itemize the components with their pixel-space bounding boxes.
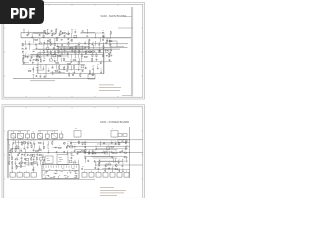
capacitor C23: [61, 44, 63, 46]
resistor R7: [62, 32, 66, 33]
resistor R5: [85, 142, 86, 146]
label text: [25, 52, 27, 55]
resistor R12: [123, 152, 127, 153]
label text: [85, 148, 87, 151]
node N8: [56, 56, 59, 59]
wire: [39, 138, 41, 140]
capacitor C14: [30, 59, 32, 61]
wire: [44, 43, 128, 45]
wire: [31, 34, 33, 36]
wire: [54, 38, 56, 42]
capacitor C5: [60, 30, 62, 32]
label text: [47, 52, 49, 55]
label text: [24, 148, 27, 151]
wire: [33, 171, 35, 173]
IC U3: [23, 142, 26, 144]
wire: [93, 157, 117, 159]
resistor R26: [75, 46, 76, 50]
resistor R38: [99, 163, 100, 167]
wire: [12, 145, 14, 149]
resistor R32: [84, 56, 88, 57]
label text: [85, 53, 87, 56]
IC U5: [32, 154, 35, 156]
label text: [56, 56, 59, 59]
wire: [54, 131, 56, 133]
wire: [61, 51, 63, 53]
capacitor C49: [23, 62, 25, 64]
label text: [31, 59, 34, 62]
module box: [89, 172, 94, 177]
ground: [78, 69, 80, 71]
wire: [48, 150, 50, 152]
node N14: [92, 44, 95, 47]
label text: [24, 151, 25, 154]
node N20: [109, 33, 112, 36]
resistor R14: [43, 50, 44, 54]
wire: [110, 47, 112, 49]
label text: [115, 157, 117, 160]
node N4: [94, 33, 97, 36]
wire: [97, 66, 99, 68]
ground: [23, 148, 25, 150]
label text: [81, 52, 84, 55]
label text: [33, 37, 34, 40]
wire: [84, 158, 86, 162]
node N7: [10, 151, 13, 154]
wire: [32, 74, 34, 78]
label text: [72, 72, 75, 75]
wire: [126, 158, 128, 162]
label text: [85, 154, 86, 157]
wire: [8, 141, 10, 145]
wire: [88, 152, 103, 154]
resistor R35: [58, 147, 62, 148]
label text: [81, 57, 83, 60]
wire: [105, 171, 107, 173]
wire: [95, 164, 143, 166]
wire: [42, 66, 44, 68]
module box: [103, 172, 108, 177]
page 1 note text line 1: [99, 84, 114, 87]
wire: [70, 54, 72, 58]
resistor R31: [85, 51, 86, 55]
resistor R11: [35, 60, 39, 61]
wire: [67, 143, 69, 145]
label text: [102, 29, 104, 32]
ground: [73, 72, 75, 74]
IC U3: [50, 59, 53, 61]
capacitor C30: [56, 151, 58, 153]
label text: [80, 72, 82, 75]
label text: [37, 53, 38, 56]
node N4: [8, 143, 11, 146]
capacitor C19: [24, 154, 26, 156]
label text: [33, 156, 35, 159]
wire: [81, 58, 83, 62]
resistor R45: [73, 162, 77, 163]
capacitor C18: [21, 157, 23, 159]
ground: [37, 164, 39, 166]
label text: [97, 165, 98, 168]
label text: [47, 160, 50, 163]
ground: [122, 171, 124, 173]
label text: [7, 140, 10, 143]
capacitor C34: [87, 160, 89, 162]
page 2 sheet: [2, 105, 145, 199]
ground: [98, 44, 100, 46]
relay K59: [60, 134, 63, 138]
resistor R43: [59, 65, 60, 69]
resistor R25: [29, 155, 33, 156]
IC U1: [74, 131, 81, 138]
wire: [115, 158, 117, 162]
node N19: [32, 73, 35, 76]
resistor R33: [43, 161, 44, 165]
resistor R36: [93, 153, 97, 154]
diode D1: [74, 146, 75, 147]
page 1 sheet: [2, 3, 145, 100]
wire: [95, 34, 97, 38]
IC U2: [46, 48, 49, 50]
node N18: [32, 67, 35, 70]
label text: [32, 164, 35, 167]
label text: [27, 31, 28, 34]
diode D5: [33, 59, 34, 60]
node N11: [39, 160, 42, 163]
capacitor C32: [84, 157, 86, 159]
node N22: [131, 27, 134, 30]
resistor R33: [88, 41, 89, 45]
wire: [117, 45, 124, 47]
capacitor C24: [60, 48, 62, 50]
wire: [32, 69, 34, 73]
label text: [36, 73, 37, 76]
wire: [55, 65, 57, 69]
wire: [70, 59, 72, 61]
label text: [126, 145, 128, 148]
label text: [89, 48, 92, 51]
ground: [61, 54, 63, 56]
wire: [32, 166, 34, 168]
label text: [21, 159, 22, 162]
ground: [92, 69, 94, 71]
ground: [39, 53, 41, 55]
wire: [47, 141, 49, 145]
module box: [24, 173, 29, 178]
ground: [97, 68, 99, 70]
label text: [85, 40, 87, 43]
label text: [103, 36, 105, 39]
capacitor C54: [40, 75, 42, 77]
wire: [106, 37, 111, 39]
page 1 frame zone ticks bottom: [26, 96, 118, 97]
capacitor C44: [33, 169, 35, 171]
resistor R49: [67, 63, 71, 64]
label text: [76, 53, 78, 56]
label text: [47, 28, 49, 31]
label text: [74, 159, 76, 162]
resistor R30: [81, 54, 82, 58]
wire: [57, 46, 59, 48]
wire: [100, 38, 102, 42]
capacitor C51: [31, 56, 33, 58]
resistor R22: [57, 55, 61, 56]
wire: [47, 42, 49, 46]
transistor Q3: [39, 56, 41, 58]
label text: [84, 65, 87, 68]
wire: [39, 146, 41, 148]
label text: [92, 41, 94, 44]
ground: [67, 54, 69, 56]
module box: [117, 172, 122, 177]
label text: [84, 140, 86, 143]
label text: [47, 148, 50, 151]
capacitor C31: [81, 168, 83, 170]
wire: [91, 156, 113, 158]
wire: [30, 53, 104, 55]
label text: [64, 33, 66, 36]
resistor R37: [99, 160, 100, 164]
wire: [24, 149, 26, 153]
label text: [23, 59, 26, 62]
wire: [108, 151, 110, 155]
label text: [94, 150, 96, 153]
wire: [75, 149, 118, 151]
wire: [50, 54, 52, 58]
sub-circuit box: [38, 53, 104, 74]
capacitor C26: [67, 38, 69, 40]
page 2 note text line 2: [100, 189, 126, 192]
page 2 note text line 1: [100, 186, 114, 189]
transistor Q6: [103, 36, 105, 38]
wire: [118, 27, 133, 29]
label text: [21, 163, 23, 166]
PDF badge letter P: [11, 8, 19, 19]
ground: [15, 163, 17, 165]
wire: [10, 179, 95, 181]
label text: [21, 155, 22, 158]
resistor R34: [52, 141, 53, 145]
label text: [99, 158, 100, 161]
capacitor C36: [106, 40, 108, 42]
capacitor C8: [103, 142, 105, 144]
capacitor C12: [121, 150, 123, 152]
node N16: [121, 158, 124, 161]
IC small: [123, 134, 127, 137]
wire: [57, 43, 59, 45]
ground: [99, 50, 101, 52]
label text: [25, 160, 26, 163]
wire: [8, 152, 130, 154]
wire: [65, 61, 112, 63]
label text: [43, 48, 44, 51]
wire: [39, 51, 41, 53]
label text: [37, 151, 38, 154]
label text: [94, 40, 97, 43]
resistor R2: [52, 33, 56, 34]
transistor Q2: [36, 55, 38, 57]
wire: [32, 39, 34, 43]
ground: [108, 56, 110, 58]
ground: [100, 72, 102, 74]
wire: [37, 162, 39, 164]
capacitor C12: [25, 47, 27, 49]
node N6: [11, 143, 14, 146]
module box: [82, 172, 87, 177]
capacitor C37: [94, 167, 96, 169]
wire: [97, 161, 122, 163]
label text: [39, 49, 42, 52]
wire: [31, 53, 57, 55]
label text: [64, 65, 66, 68]
label text: [29, 44, 30, 47]
wire: [67, 53, 69, 57]
capacitor C41: [111, 156, 113, 158]
module box: [110, 172, 115, 177]
label text: [27, 144, 29, 147]
wire: [118, 160, 120, 162]
capacitor C15: [35, 44, 37, 46]
label text: [71, 150, 72, 153]
capacitor C36: [94, 160, 96, 162]
capacitor C27: [33, 158, 35, 160]
wire: [21, 31, 46, 33]
label text: [76, 44, 78, 47]
wire: [38, 130, 58, 132]
capacitor C53: [36, 75, 38, 77]
label text: [51, 130, 54, 133]
node N17: [70, 65, 73, 68]
resistor R14: [9, 161, 10, 165]
label text: [108, 145, 110, 148]
page 1 schematic frame: [4, 4, 143, 97]
wire: [95, 146, 97, 148]
label text: [68, 141, 70, 144]
wire: [11, 153, 13, 157]
node N1: [128, 138, 131, 141]
IC U90: [88, 75, 95, 80]
capacitor C6: [59, 34, 61, 36]
PDF badge letter F: [29, 8, 35, 19]
capacitor C33: [96, 59, 98, 61]
resistor R47: [89, 70, 90, 74]
transistor Q3: [84, 151, 86, 153]
wire: [100, 160, 128, 162]
ground: [28, 33, 30, 35]
resistor R52: [69, 73, 70, 77]
wire: [15, 142, 30, 144]
label text: [68, 71, 69, 74]
resistor R3: [59, 33, 63, 34]
wire: [8, 145, 10, 149]
resistor R3: [82, 142, 83, 146]
wire: [54, 138, 56, 139]
resistor R51: [28, 70, 32, 71]
resistor R43: [16, 165, 17, 169]
resistor R42: [124, 157, 128, 158]
node N21: [130, 15, 133, 18]
resistor R34: [88, 46, 89, 50]
wire: [70, 34, 72, 38]
diode D4: [71, 153, 72, 154]
diode D11: [102, 32, 103, 33]
ground: [25, 56, 27, 58]
module box: [17, 173, 22, 178]
wire: [43, 54, 45, 58]
module box: [96, 172, 101, 177]
label text: [119, 158, 120, 161]
resistor R44: [20, 164, 21, 168]
capacitor C37: [105, 42, 107, 44]
label text: [32, 54, 33, 57]
label text: [81, 45, 83, 48]
wire: [24, 152, 41, 154]
label text: [55, 37, 57, 40]
wire: [71, 66, 73, 70]
label text: [39, 40, 42, 43]
label text: [28, 54, 30, 57]
node N5: [8, 156, 11, 159]
capacitor C22: [27, 143, 29, 145]
label text: [75, 57, 77, 60]
label text: [71, 53, 73, 56]
IC U4: [53, 55, 56, 57]
wire: [60, 58, 62, 62]
resistor R25: [69, 48, 73, 49]
wire: [33, 49, 83, 51]
wire: [26, 171, 28, 173]
capacitor C29: [84, 42, 86, 44]
label text: [62, 49, 63, 52]
capacitor C28: [37, 154, 39, 156]
label text: [37, 64, 38, 67]
label text: [110, 52, 111, 55]
label text: [47, 48, 48, 51]
IC U2: [107, 147, 110, 149]
wire: [122, 168, 124, 170]
capacitor C20: [24, 158, 26, 160]
wire: [99, 47, 101, 49]
wire: [63, 47, 65, 51]
IC U5: [105, 50, 108, 52]
label text: [47, 40, 50, 43]
label text: [61, 45, 63, 48]
wire: [71, 154, 74, 156]
resistor R38: [92, 58, 93, 62]
capacitor C10: [22, 51, 24, 53]
ground: [118, 162, 120, 164]
resistor R28: [36, 157, 37, 161]
resistor R16: [12, 156, 13, 160]
wire: [112, 167, 114, 171]
capacitor C45: [82, 70, 84, 72]
wire: [11, 165, 13, 167]
label text: [40, 160, 42, 163]
capacitor C24: [27, 154, 29, 156]
wire: [84, 156, 126, 158]
capacitor C17: [43, 42, 45, 44]
label text: [21, 147, 22, 150]
label text: [59, 161, 62, 164]
capacitor C22: [54, 60, 56, 62]
resistor R30: [38, 150, 42, 151]
capacitor C44: [59, 71, 61, 73]
label text: [106, 37, 109, 40]
wire: [36, 69, 43, 71]
capacitor C43: [52, 66, 54, 68]
label text: [16, 144, 17, 147]
diode D8: [106, 55, 107, 56]
